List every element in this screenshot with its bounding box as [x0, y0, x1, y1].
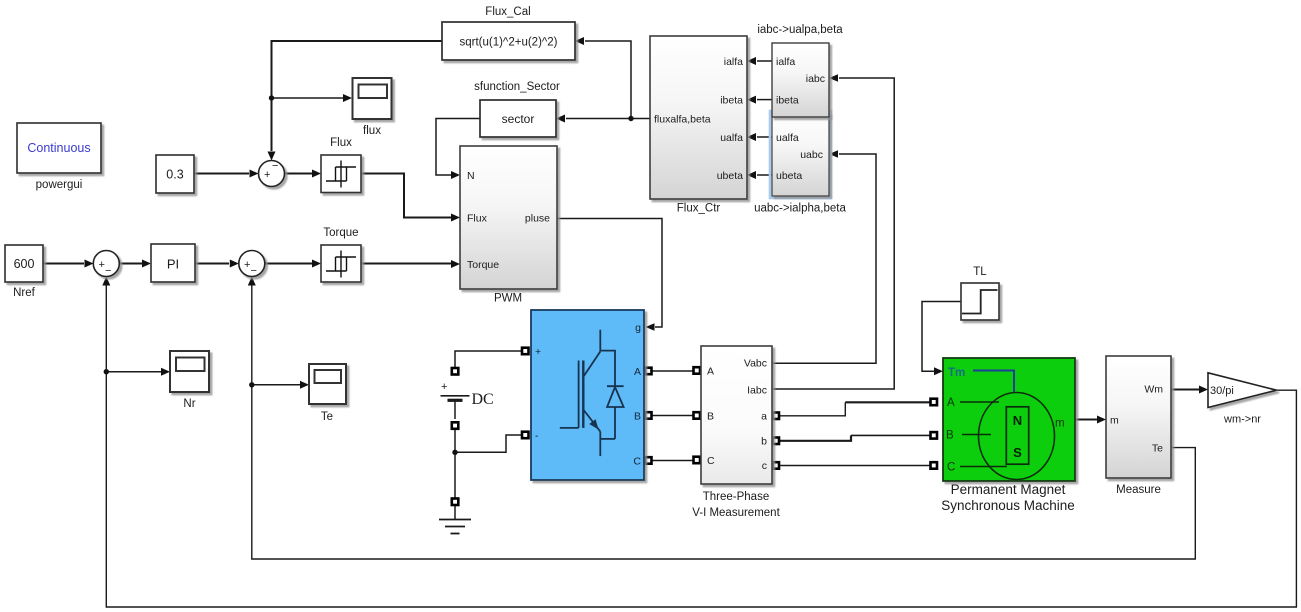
svg-text:PWM: PWM	[494, 293, 522, 305]
svg-text:a: a	[761, 411, 767, 423]
svg-text:sfunction_Sector: sfunction_Sector	[474, 81, 560, 93]
svg-text:m: m	[1055, 418, 1065, 430]
svg-text:V-I Measurement: V-I Measurement	[692, 507, 780, 519]
svg-text:c: c	[762, 460, 767, 472]
svg-text:ubeta: ubeta	[776, 170, 802, 182]
svg-text:N: N	[467, 170, 475, 182]
svg-text:−: −	[272, 160, 278, 172]
svg-text:Continuous: Continuous	[27, 141, 90, 155]
svg-text:Flux: Flux	[330, 137, 352, 149]
svg-text:Te: Te	[321, 411, 333, 423]
svg-text:Te: Te	[1152, 443, 1163, 455]
svg-text:uabc->ialpha,beta: uabc->ialpha,beta	[754, 203, 846, 215]
svg-text:Permanent Magnet: Permanent Magnet	[951, 482, 1066, 497]
svg-text:B: B	[634, 411, 641, 423]
svg-text:ubeta: ubeta	[717, 170, 743, 182]
svg-text:Measure: Measure	[1116, 484, 1161, 496]
svg-text:C: C	[947, 462, 955, 474]
svg-text:ialfa: ialfa	[776, 56, 795, 68]
svg-text:iabc: iabc	[806, 73, 825, 85]
svg-text:powergui: powergui	[36, 179, 83, 191]
svg-text:B: B	[707, 411, 714, 423]
svg-text:Synchronous Machine: Synchronous Machine	[941, 498, 1075, 513]
svg-text:pluse: pluse	[525, 213, 550, 225]
svg-text:Torque: Torque	[467, 259, 499, 271]
svg-text:30/pi: 30/pi	[1210, 385, 1234, 397]
svg-text:A: A	[707, 366, 714, 378]
svg-text:flux: flux	[363, 125, 381, 137]
svg-text:Flux: Flux	[467, 213, 488, 225]
svg-text:+: +	[535, 346, 541, 358]
svg-text:A: A	[634, 366, 641, 378]
svg-text:iabc->ualpa,beta: iabc->ualpa,beta	[757, 24, 843, 36]
svg-text:B: B	[946, 430, 954, 442]
svg-text:Vabc: Vabc	[744, 358, 767, 370]
svg-text:−: −	[251, 265, 257, 277]
svg-text:ualfa: ualfa	[776, 132, 799, 144]
svg-text:Flux_Ctr: Flux_Ctr	[677, 203, 721, 215]
svg-text:DC: DC	[472, 391, 494, 408]
svg-text:sqrt(u(1)^2+u(2)^2): sqrt(u(1)^2+u(2)^2)	[459, 37, 557, 49]
svg-text:600: 600	[14, 257, 35, 271]
svg-text:+: +	[264, 169, 270, 181]
svg-text:Nref: Nref	[13, 287, 36, 299]
svg-text:0.3: 0.3	[166, 168, 183, 182]
svg-text:+: +	[244, 259, 250, 271]
svg-text:PI: PI	[167, 257, 179, 272]
svg-text:b: b	[761, 436, 767, 448]
svg-text:−: −	[105, 265, 111, 277]
svg-text:TL: TL	[973, 266, 987, 278]
svg-text:C: C	[633, 456, 641, 468]
svg-text:S: S	[1013, 445, 1022, 460]
svg-text:ualfa: ualfa	[720, 132, 743, 144]
svg-text:C: C	[707, 455, 715, 467]
svg-text:-: -	[535, 430, 539, 442]
svg-text:Nr: Nr	[183, 398, 195, 410]
svg-text:ialfa: ialfa	[724, 56, 743, 68]
svg-text:g: g	[635, 322, 641, 334]
svg-text:fluxalfa,beta: fluxalfa,beta	[654, 114, 711, 126]
svg-text:+: +	[99, 259, 105, 271]
svg-text:Three-Phase: Three-Phase	[703, 491, 769, 503]
svg-text:A: A	[947, 397, 955, 409]
svg-text:ibeta: ibeta	[720, 95, 743, 107]
svg-text:uabc: uabc	[800, 149, 823, 161]
svg-text:N: N	[1013, 413, 1022, 428]
svg-text:Flux_Cal: Flux_Cal	[485, 6, 530, 18]
svg-text:Torque: Torque	[323, 227, 358, 239]
svg-text:Wm: Wm	[1144, 384, 1163, 396]
svg-text:Iabc: Iabc	[747, 385, 767, 397]
svg-text:wm->nr: wm->nr	[1223, 414, 1261, 426]
svg-text:Tm: Tm	[948, 367, 965, 379]
svg-text:sector: sector	[502, 112, 535, 126]
svg-text:m: m	[1110, 415, 1119, 427]
svg-text:+: +	[441, 381, 447, 393]
svg-text:ibeta: ibeta	[776, 95, 799, 107]
